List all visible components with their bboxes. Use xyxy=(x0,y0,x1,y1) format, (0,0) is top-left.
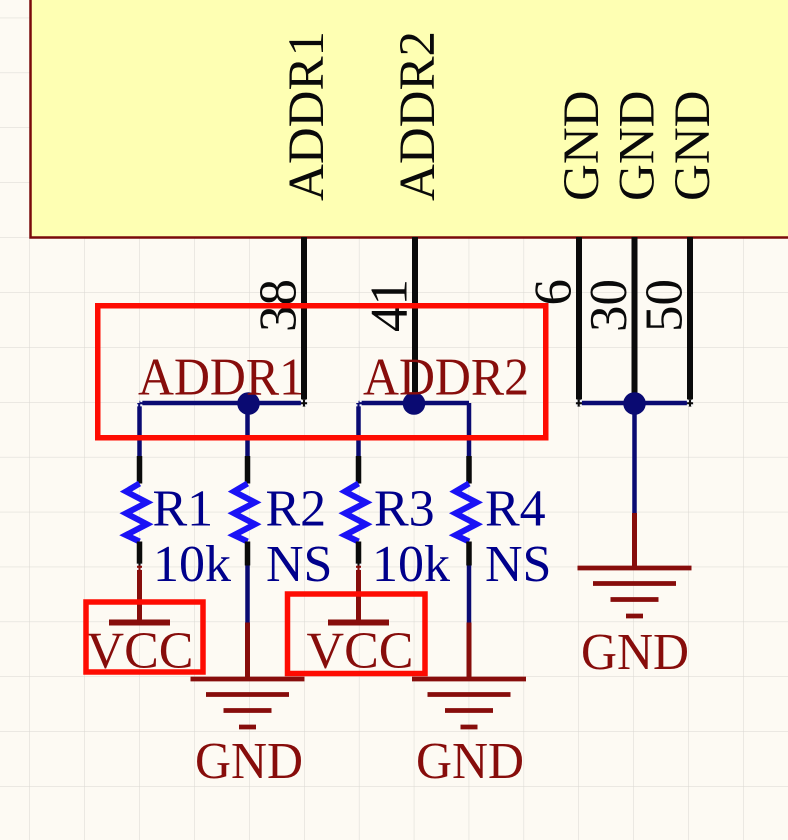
label R3 xyxy=(374,481,435,538)
junction dot net GND xyxy=(623,392,646,415)
pin 30 wire xyxy=(632,237,638,401)
svg-text:GND: GND xyxy=(416,733,524,790)
wire R2 to ground xyxy=(245,566,250,623)
pin number 50 xyxy=(636,279,694,332)
label R4 xyxy=(485,481,546,538)
pin name ADDR1 xyxy=(279,31,335,201)
pin 41 wire xyxy=(412,237,418,401)
wire GND vertical xyxy=(632,403,637,513)
value NS (R2) xyxy=(266,536,332,593)
wire vertex marker (358.5,403.2) xyxy=(355,400,361,406)
ground GND (R2) xyxy=(191,623,305,791)
svg-text:GND: GND xyxy=(554,91,610,202)
pin end marker (139.5,566.8) xyxy=(136,564,142,570)
wire R4 to ground xyxy=(467,566,472,623)
pin end marker (358.5,566.8) xyxy=(355,564,361,570)
value 10k (R1) xyxy=(153,536,231,593)
svg-text:ADDR2: ADDR2 xyxy=(390,31,446,201)
label R2 xyxy=(266,481,327,538)
wire net GND horizontal xyxy=(582,401,687,406)
svg-text:6: 6 xyxy=(525,279,583,306)
wire R3 stub xyxy=(356,403,361,458)
svg-text:GND: GND xyxy=(665,91,721,202)
power VCC (R1) xyxy=(87,566,194,680)
highlight rect VCC (R1) xyxy=(86,602,203,672)
pin 38 wire xyxy=(301,237,307,407)
pin number 30 xyxy=(580,279,638,332)
junction dot net ADDR1 xyxy=(237,392,260,415)
pin 50 wire xyxy=(687,237,693,407)
pin name GND (pin 6) xyxy=(554,91,610,202)
pin number 41 xyxy=(361,279,419,332)
pin 6 wire xyxy=(576,237,582,407)
junction dot net ADDR2 xyxy=(403,392,426,415)
svg-text:10k: 10k xyxy=(372,536,450,593)
highlight rect VCC (R3) xyxy=(288,594,426,674)
svg-text:R4: R4 xyxy=(485,481,546,538)
resistor R1 xyxy=(126,456,147,566)
resistor R4 xyxy=(456,456,477,566)
pin end marker (578.7,403.2) xyxy=(576,400,582,406)
svg-text:ADDR1: ADDR1 xyxy=(138,349,304,407)
svg-text:GND: GND xyxy=(610,91,666,202)
wire net ADDR2 horizontal xyxy=(359,401,470,406)
value NS (R4) xyxy=(485,536,551,593)
ground GND (pins 6/30/50) xyxy=(578,513,692,681)
svg-text:R2: R2 xyxy=(266,481,327,538)
pin number 6 xyxy=(525,279,583,306)
IC body U1 xyxy=(31,0,788,238)
pin name ADDR2 xyxy=(390,31,446,201)
svg-text:R1: R1 xyxy=(153,481,214,538)
svg-text:30: 30 xyxy=(580,279,638,332)
svg-text:50: 50 xyxy=(636,279,694,332)
pin name GND (pin 50) xyxy=(665,91,721,202)
svg-text:NS: NS xyxy=(485,536,551,593)
pin number 38 xyxy=(250,279,308,332)
wire R1 stub xyxy=(137,403,142,458)
ground GND (R4) xyxy=(412,623,526,791)
net label ADDR2 xyxy=(363,349,529,407)
wire vertex marker (139.2,403.2) xyxy=(136,400,142,406)
svg-text:NS: NS xyxy=(266,536,332,593)
svg-text:R3: R3 xyxy=(374,481,435,538)
highlight rect net labels xyxy=(98,306,546,438)
label R1 xyxy=(153,481,214,538)
svg-text:GND: GND xyxy=(581,624,689,681)
svg-text:ADDR1: ADDR1 xyxy=(279,31,335,201)
wire R2 stub xyxy=(245,403,250,458)
power VCC (R3) xyxy=(307,566,414,680)
wire net ADDR1 horizontal xyxy=(140,401,302,406)
pin name GND (pin 30) xyxy=(610,91,666,202)
net label ADDR1 xyxy=(138,349,304,407)
value 10k (R3) xyxy=(372,536,450,593)
pin end marker (690,403.2) xyxy=(687,400,693,406)
resistor R3 xyxy=(345,456,366,566)
pin end marker (304,403.2) xyxy=(301,400,307,406)
wire R4 stub xyxy=(467,403,472,458)
resistor R2 xyxy=(234,456,255,566)
svg-text:10k: 10k xyxy=(153,536,231,593)
svg-text:ADDR2: ADDR2 xyxy=(363,349,529,407)
svg-text:GND: GND xyxy=(195,733,303,790)
